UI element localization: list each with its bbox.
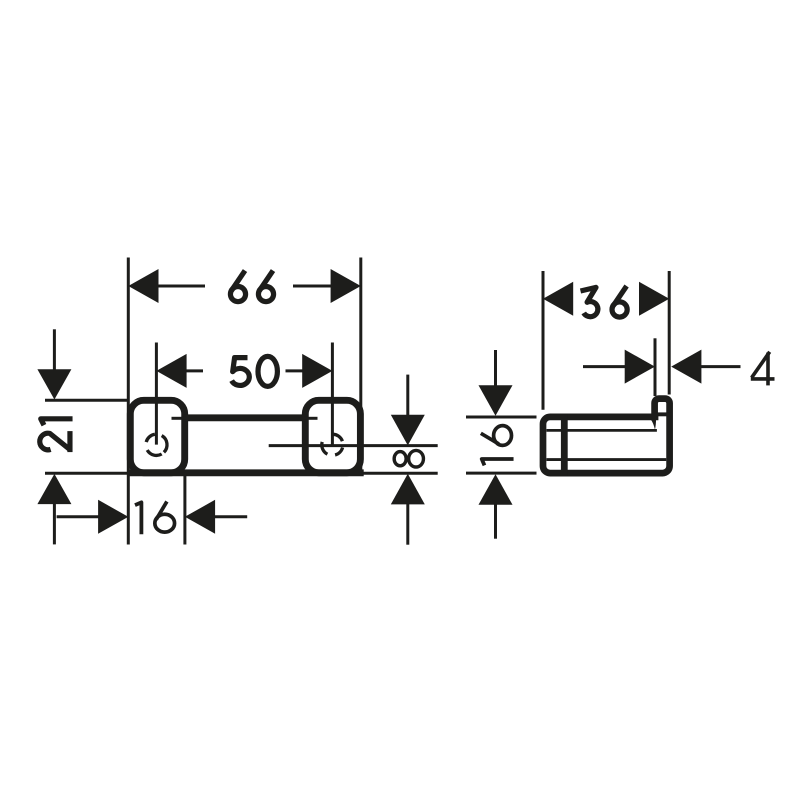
bar bottom edge thick (127, 469, 364, 476)
dim 66 extension line left (long, runs down through cap to 16-dim) (127, 258, 130, 545)
dim 36 arrow left (543, 282, 573, 316)
dim 8 bottom tail (406, 504, 409, 545)
dim 16 side: top extension line (466, 416, 537, 419)
dim 21 arrow top (37, 369, 71, 399)
dim 21 top extension line (45, 399, 127, 402)
dim 16 side top tail (494, 350, 497, 386)
dim 4 right tail (701, 365, 741, 368)
dim 50 text (232, 356, 278, 386)
dim 66 extension line right (359, 258, 362, 473)
dim 21 top tail (53, 329, 56, 370)
dim 4 left tail (583, 365, 625, 368)
dim 50 extension/centerline right (331, 343, 334, 445)
bottom extension line (21 / 8 leader) (45, 472, 438, 475)
dim 50 arrow right (302, 354, 332, 388)
right screw circle (dashed) (322, 434, 343, 455)
dim 16 side: bottom extension line (466, 472, 537, 475)
dim 16 front left tail (57, 515, 99, 518)
dim 4 text (751, 352, 775, 386)
divider (wall plate joint) (561, 414, 568, 476)
dim 16 side text (rotated) (481, 426, 514, 466)
dim 16 front right tail (215, 515, 248, 518)
hook body outline (side view) (543, 399, 670, 474)
dim 21 text (rotated) (40, 419, 73, 452)
dim 50 line right tail (286, 369, 303, 372)
dim 4 arrow right (points left) (671, 350, 701, 384)
dim 36 / 4 extension line right (668, 271, 671, 395)
dim 16 front arrow right (points left) (185, 500, 215, 534)
leader through right screw center (8 dim top) (269, 444, 438, 447)
dim 8 top tail (406, 375, 409, 416)
dim 21 arrow bottom (37, 474, 71, 504)
dim 66 text (230, 271, 273, 302)
dim 16 side arrow top (points down) (479, 385, 513, 416)
dim 50 arrow left (156, 354, 186, 388)
dim 36 arrow right (639, 282, 669, 316)
dim 21 bottom tail (53, 504, 56, 545)
dim 50 line left tail (186, 369, 203, 372)
interior lower line (547, 458, 667, 461)
dim 66 line left tail (158, 285, 205, 288)
dim 16 front text (135, 502, 175, 535)
dim 16 side arrow bottom (points up) (479, 474, 513, 505)
dim 36 text (581, 286, 628, 317)
dim 66 line right tail (293, 285, 331, 288)
dim 16 front: extension line right (183, 473, 186, 545)
hook arm lower edge (547, 429, 657, 432)
dim 66 arrow right (331, 269, 361, 303)
left cap rounded square (130, 400, 184, 473)
dim 4 arrow left (points right) (625, 350, 655, 384)
dim 36 extension line left (542, 271, 545, 410)
hook tip wedge (651, 419, 656, 430)
dim 16 front arrow left (points right) (98, 500, 128, 534)
band under lip notch (656, 412, 672, 416)
bar top edge thick (184, 414, 306, 421)
bar top edge thin segment in left cap (172, 417, 187, 420)
dim 4 extension line left (lip left face) (654, 338, 657, 396)
dim 8 text (rotated) (394, 450, 423, 467)
left screw circle (dashed) (146, 434, 167, 455)
dim 50 extension/centerline left (155, 343, 158, 445)
dim 16 side bottom tail (494, 504, 497, 539)
right cap rounded square (305, 400, 360, 473)
dim 8 arrow top (points down) (391, 415, 425, 446)
dim 8 arrow bottom (points up) (391, 474, 425, 505)
dim 66 arrow left (128, 269, 158, 303)
bar top edge thin segment in right cap (304, 417, 318, 420)
